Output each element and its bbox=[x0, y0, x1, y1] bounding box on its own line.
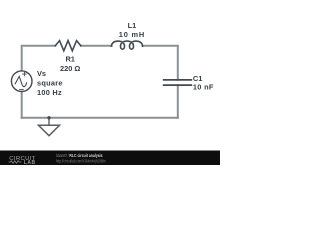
svg-text:RLC circuit analysis: RLC circuit analysis bbox=[69, 153, 103, 158]
wire top-left horizontal (corner to R1) bbox=[22, 46, 56, 71]
svg-text:10 nF: 10 nF bbox=[193, 82, 214, 91]
wire L1 to top-right corner and down to C1 bbox=[143, 46, 178, 80]
ground symbol bbox=[39, 125, 60, 135]
resistor R1 bbox=[55, 41, 81, 51]
wire C1 bottom to bottom-right corner bbox=[177, 85, 179, 118]
wire bottom rail bbox=[22, 117, 178, 119]
svg-text:R1: R1 bbox=[65, 55, 74, 64]
source plus sign bbox=[23, 72, 27, 76]
labels bbox=[37, 21, 214, 97]
svg-text:LAB: LAB bbox=[24, 160, 36, 165]
wire source bottom to rail bbox=[21, 92, 23, 118]
wire ground stub bbox=[48, 118, 50, 126]
wire R1 to L1 bbox=[81, 45, 112, 47]
voltage source Vs (circle body) bbox=[11, 71, 32, 92]
svg-text:L1: L1 bbox=[128, 21, 137, 30]
source waveform bbox=[15, 76, 26, 86]
svg-text:Vs: Vs bbox=[37, 69, 46, 78]
inductor L1 bbox=[112, 41, 143, 49]
footer black bar bbox=[0, 151, 220, 166]
svg-text:bduarte07 /: bduarte07 / bbox=[56, 153, 69, 158]
source minus sign bbox=[20, 88, 24, 90]
svg-text:square: square bbox=[37, 78, 63, 87]
svg-text:10 mH: 10 mH bbox=[119, 30, 145, 39]
CircuitLab logo: resistor zigzag bbox=[9, 161, 22, 164]
node junction dot (ground net) bbox=[47, 116, 50, 119]
svg-text:100 Hz: 100 Hz bbox=[37, 88, 62, 97]
svg-text:220 Ω: 220 Ω bbox=[60, 64, 80, 73]
capacitor C1 bbox=[164, 79, 192, 81]
svg-text:http://circuitlab.com/c364m4oj: http://circuitlab.com/c364m4ojh28fdm bbox=[56, 158, 106, 163]
